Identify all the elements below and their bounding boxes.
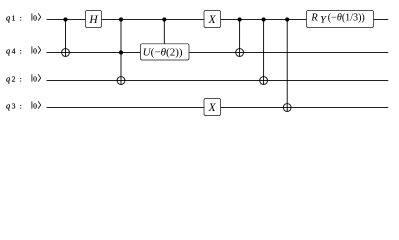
- wire q4: [47, 51, 389, 53]
- svg-text:0: 0: [33, 74, 37, 83]
- wire q2: [47, 79, 389, 81]
- svg-text::: :: [20, 46, 22, 55]
- gate X on q3: [204, 99, 221, 116]
- CNOT q1->q2 : target oplus: [260, 77, 268, 85]
- CNOT q1->q4 : target oplus: [62, 49, 70, 57]
- svg-text:0: 0: [33, 46, 37, 55]
- svg-text:2: 2: [12, 74, 16, 83]
- gate H on q1: [86, 11, 102, 28]
- svg-text:4: 4: [12, 46, 16, 55]
- gate RY(-theta(1/3)) on q1: [307, 11, 374, 28]
- gate U(-theta(2)) on q4: [141, 44, 190, 60]
- svg-text:0: 0: [33, 101, 37, 110]
- qubit label q1 : |0>: [6, 13, 41, 22]
- svg-text:(−θ(1/3)): (−θ(1/3)): [328, 13, 365, 24]
- Toffoli control dot on q1: [119, 17, 123, 21]
- svg-text:1: 1: [12, 13, 16, 22]
- svg-text:U(−θ(2)): U(−θ(2)): [143, 47, 183, 58]
- svg-text:H: H: [88, 14, 98, 26]
- CNOT q1->q2 : vertical wire: [263, 20, 265, 85]
- gate X on q1: [204, 11, 221, 28]
- svg-text:R: R: [310, 13, 318, 24]
- Toffoli (q1,q4)->q2 : vertical wire: [120, 20, 122, 85]
- CNOT q1->q3 : target oplus: [283, 104, 291, 112]
- svg-text:q: q: [6, 74, 10, 83]
- svg-text:q: q: [6, 46, 10, 55]
- CNOT q1->q4 second : control dot: [238, 17, 242, 21]
- CNOT q1->q3 : control dot: [285, 17, 289, 21]
- svg-text::: :: [20, 74, 22, 83]
- CNOT q1->q3 : vertical wire: [286, 20, 288, 112]
- qubit label q3 : |0>: [6, 101, 41, 110]
- qubit label q2 : |0>: [6, 74, 41, 83]
- CNOT q1->q4 second : vertical wire: [239, 20, 241, 57]
- svg-text:X: X: [208, 14, 217, 26]
- Toffoli control dot on q4: [119, 50, 123, 54]
- CNOT q1->q4 : vertical wire: [65, 20, 67, 57]
- svg-text:X: X: [208, 102, 217, 114]
- CNOT q1->q2 : control dot: [262, 17, 266, 21]
- wire q3: [47, 106, 389, 108]
- qubit label q4 : |0>: [6, 46, 41, 55]
- svg-text::: :: [20, 13, 22, 22]
- svg-text:0: 0: [33, 13, 37, 22]
- svg-text:3: 3: [12, 101, 16, 110]
- controlled-U : control dot on q1: [162, 17, 166, 21]
- svg-text::: :: [20, 101, 22, 110]
- CNOT q1->q4 : control dot: [63, 17, 67, 21]
- Toffoli target oplus on q2: [117, 77, 125, 85]
- CNOT q1->q4 second : target oplus: [236, 49, 244, 57]
- wire q1: [47, 18, 389, 20]
- svg-text:q: q: [6, 13, 10, 22]
- controlled-U : vertical wire: [163, 20, 165, 45]
- svg-text:q: q: [6, 101, 10, 110]
